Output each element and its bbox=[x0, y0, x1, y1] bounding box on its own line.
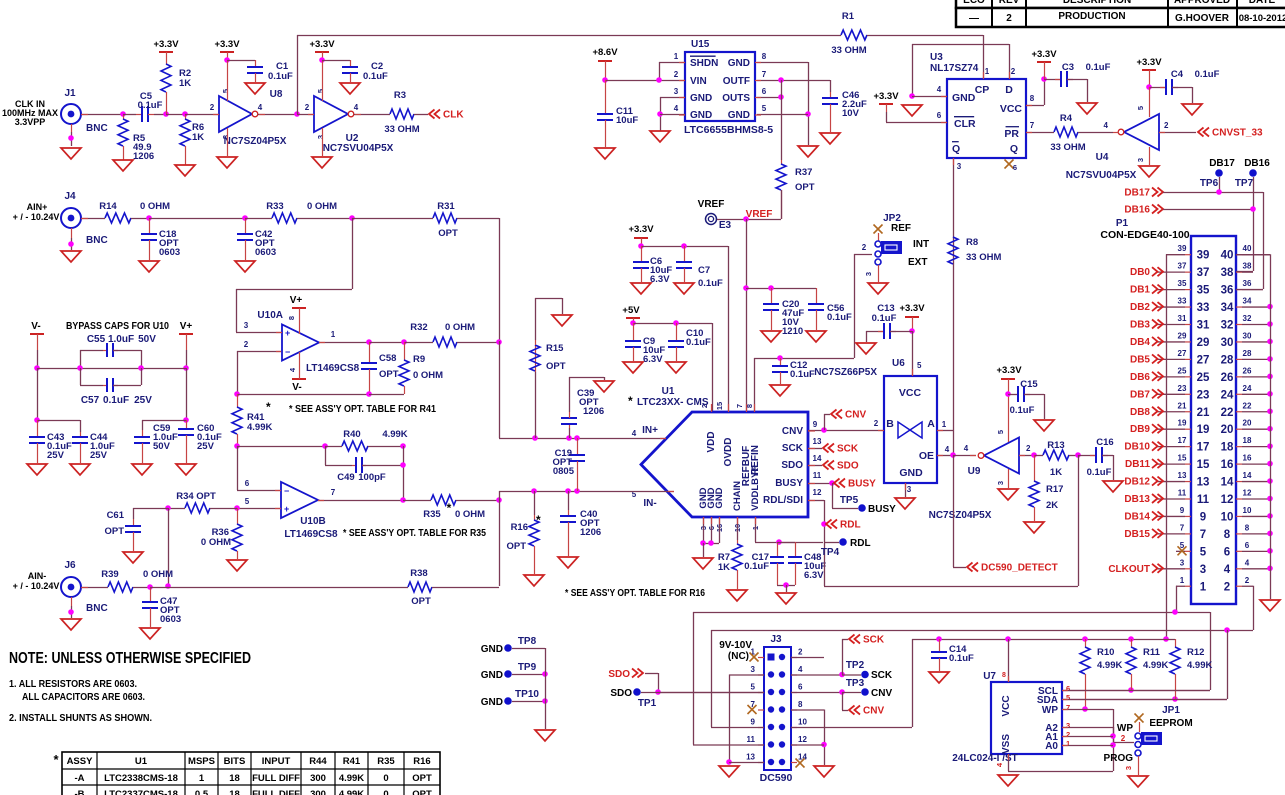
svg-text:ALL CAPACITORS ARE 0603.: ALL CAPACITORS ARE 0603. bbox=[22, 691, 145, 703]
svg-text:R8: R8 bbox=[966, 237, 978, 248]
svg-text:CLR: CLR bbox=[954, 118, 976, 130]
svg-text:BNC: BNC bbox=[86, 235, 108, 246]
svg-text:TP2: TP2 bbox=[846, 660, 865, 671]
svg-text:7: 7 bbox=[1180, 523, 1185, 532]
svg-text:C3: C3 bbox=[1062, 62, 1074, 73]
svg-text:R44: R44 bbox=[309, 756, 327, 767]
svg-text:NOTE: UNLESS OTHERWISE SPECIFI: NOTE: UNLESS OTHERWISE SPECIFIED bbox=[9, 650, 251, 667]
svg-text:R17: R17 bbox=[1046, 484, 1063, 495]
svg-text:*: * bbox=[536, 513, 541, 527]
svg-text:33 OHM: 33 OHM bbox=[1050, 142, 1085, 153]
svg-text:DB8: DB8 bbox=[1130, 407, 1150, 418]
svg-text:U10B: U10B bbox=[300, 516, 326, 527]
svg-text:5: 5 bbox=[1200, 546, 1207, 558]
svg-text:2: 2 bbox=[674, 70, 679, 79]
svg-text:4: 4 bbox=[937, 85, 942, 94]
svg-text:26: 26 bbox=[1221, 372, 1234, 384]
svg-text:R16: R16 bbox=[413, 756, 430, 767]
svg-text:AIN-: AIN- bbox=[28, 571, 47, 581]
svg-text:15: 15 bbox=[1178, 454, 1187, 463]
svg-text:28: 28 bbox=[1221, 354, 1234, 366]
svg-text:C16: C16 bbox=[1096, 437, 1113, 448]
svg-text:9: 9 bbox=[1180, 506, 1185, 515]
svg-text:OE: OE bbox=[919, 450, 934, 462]
svg-text:R9: R9 bbox=[413, 354, 425, 365]
svg-text:25V: 25V bbox=[134, 395, 152, 406]
svg-text:2: 2 bbox=[1006, 13, 1012, 24]
svg-text:+: + bbox=[284, 504, 289, 514]
svg-text:2: 2 bbox=[1224, 581, 1230, 593]
svg-text:23: 23 bbox=[1197, 389, 1210, 401]
svg-text:OVDD: OVDD bbox=[723, 438, 734, 467]
svg-text:5: 5 bbox=[221, 89, 230, 93]
svg-text:100pF: 100pF bbox=[358, 472, 386, 483]
svg-text:U1: U1 bbox=[135, 756, 148, 767]
svg-text:VREF: VREF bbox=[746, 209, 773, 220]
svg-text:3.3VPP: 3.3VPP bbox=[15, 117, 46, 127]
svg-text:*: * bbox=[53, 752, 59, 767]
svg-text:TP8: TP8 bbox=[518, 636, 537, 647]
svg-text:9: 9 bbox=[751, 718, 756, 727]
svg-text:DB14: DB14 bbox=[1124, 511, 1150, 522]
svg-text:0.1uF: 0.1uF bbox=[827, 312, 852, 323]
svg-text:IN+: IN+ bbox=[642, 425, 658, 436]
svg-text:4.99K: 4.99K bbox=[339, 789, 364, 795]
svg-text:LT1469CS8: LT1469CS8 bbox=[284, 529, 338, 540]
svg-text:08-10-2012: 08-10-2012 bbox=[1239, 13, 1285, 24]
svg-text:4.99K: 4.99K bbox=[339, 773, 364, 784]
svg-text:DB6: DB6 bbox=[1130, 372, 1150, 383]
svg-text:2: 2 bbox=[700, 404, 709, 408]
svg-text:NC7SZ04P5X: NC7SZ04P5X bbox=[929, 510, 992, 521]
svg-text:18: 18 bbox=[1221, 442, 1234, 454]
svg-text:DB7: DB7 bbox=[1130, 389, 1150, 400]
svg-text:12: 12 bbox=[1221, 494, 1234, 506]
svg-text:DB16: DB16 bbox=[1124, 205, 1150, 216]
svg-text:J1: J1 bbox=[64, 88, 76, 99]
svg-text:NC7SVU04P5X: NC7SVU04P5X bbox=[323, 143, 394, 154]
svg-text:29: 29 bbox=[1178, 331, 1187, 340]
svg-text:DB16: DB16 bbox=[1244, 158, 1270, 169]
svg-text:INPUT: INPUT bbox=[262, 756, 291, 767]
svg-text:OPT: OPT bbox=[196, 491, 216, 502]
svg-text:DB17: DB17 bbox=[1209, 158, 1235, 169]
svg-text:CNVST_33: CNVST_33 bbox=[1212, 128, 1263, 139]
svg-text:RDL/SDI: RDL/SDI bbox=[763, 495, 803, 506]
svg-text:AIN+: AIN+ bbox=[27, 202, 48, 212]
svg-text:0 OHM: 0 OHM bbox=[445, 322, 475, 333]
svg-text:-A: -A bbox=[74, 773, 84, 784]
svg-text:0.1uF: 0.1uF bbox=[1195, 69, 1220, 80]
svg-text:3: 3 bbox=[996, 481, 1005, 485]
svg-text:1.0uF: 1.0uF bbox=[108, 334, 134, 345]
svg-text:VDDLBYP: VDDLBYP bbox=[750, 465, 761, 511]
svg-text:14: 14 bbox=[1221, 477, 1234, 489]
svg-text:26: 26 bbox=[1243, 366, 1252, 375]
svg-text:0.1uF: 0.1uF bbox=[744, 561, 769, 572]
svg-text:IN-: IN- bbox=[643, 498, 656, 509]
svg-text:10V: 10V bbox=[842, 108, 860, 119]
svg-text:U9: U9 bbox=[968, 466, 981, 477]
svg-text:1: 1 bbox=[942, 420, 947, 429]
svg-text:DB12: DB12 bbox=[1124, 477, 1150, 488]
svg-text:0.1uF: 0.1uF bbox=[872, 313, 897, 324]
svg-text:OPT: OPT bbox=[411, 596, 431, 607]
svg-text:8: 8 bbox=[762, 52, 767, 61]
svg-text:10: 10 bbox=[1243, 506, 1252, 515]
svg-text:36: 36 bbox=[1243, 279, 1252, 288]
svg-text:* SEE ASS'Y OPT. TABLE FOR R41: * SEE ASS'Y OPT. TABLE FOR R41 bbox=[289, 404, 436, 415]
svg-text:15: 15 bbox=[1197, 459, 1210, 471]
svg-text:NL17SZ74: NL17SZ74 bbox=[930, 63, 979, 74]
svg-text:U10A: U10A bbox=[257, 310, 283, 321]
svg-text:0 OHM: 0 OHM bbox=[413, 370, 443, 381]
svg-text:39: 39 bbox=[1178, 244, 1187, 253]
svg-text:0.1uF: 0.1uF bbox=[686, 337, 711, 348]
svg-text:−: − bbox=[284, 486, 289, 496]
svg-text:6: 6 bbox=[245, 479, 250, 488]
svg-text:OPT: OPT bbox=[104, 526, 124, 537]
svg-text:* SEE ASS'Y OPT. TABLE FOR R16: * SEE ASS'Y OPT. TABLE FOR R16 bbox=[565, 588, 705, 599]
svg-text:1206: 1206 bbox=[583, 406, 604, 417]
svg-text:6.3V: 6.3V bbox=[643, 354, 663, 365]
svg-text:11: 11 bbox=[813, 471, 822, 480]
svg-text:7: 7 bbox=[762, 70, 767, 79]
svg-text:37: 37 bbox=[1178, 262, 1187, 271]
svg-text:VSS: VSS bbox=[1001, 734, 1012, 754]
svg-text:+3.3V: +3.3V bbox=[899, 303, 925, 314]
svg-text:3: 3 bbox=[1180, 558, 1185, 567]
svg-text:TP6: TP6 bbox=[1200, 178, 1219, 189]
svg-text:50V: 50V bbox=[138, 334, 156, 345]
svg-text:RDL: RDL bbox=[840, 520, 861, 531]
svg-text:1206: 1206 bbox=[133, 151, 154, 162]
svg-text:20: 20 bbox=[1221, 424, 1234, 436]
svg-text:R33: R33 bbox=[266, 201, 283, 212]
svg-text:U6: U6 bbox=[892, 358, 905, 369]
svg-text:0 OHM: 0 OHM bbox=[143, 569, 173, 580]
svg-text:2. INSTALL SHUNTS AS SHOWN.: 2. INSTALL SHUNTS AS SHOWN. bbox=[9, 712, 152, 724]
svg-text:A: A bbox=[927, 418, 935, 430]
svg-text:SDO: SDO bbox=[781, 460, 803, 471]
svg-text:4: 4 bbox=[1104, 121, 1109, 130]
svg-text:GND: GND bbox=[728, 110, 750, 121]
svg-text:GND: GND bbox=[952, 92, 976, 104]
svg-text:13: 13 bbox=[1178, 471, 1187, 480]
svg-text:ASSY: ASSY bbox=[67, 756, 94, 767]
svg-text:7: 7 bbox=[331, 488, 336, 497]
svg-text:BITS: BITS bbox=[224, 756, 246, 767]
svg-text:0.1uF: 0.1uF bbox=[103, 395, 129, 406]
svg-text:19: 19 bbox=[1178, 419, 1187, 428]
svg-text:TP7: TP7 bbox=[1235, 178, 1254, 189]
svg-text:30: 30 bbox=[1221, 337, 1234, 349]
svg-text:RDL: RDL bbox=[850, 538, 871, 549]
svg-text:GND: GND bbox=[481, 697, 503, 708]
svg-text:DB1: DB1 bbox=[1130, 285, 1150, 296]
svg-text:0.1uF: 0.1uF bbox=[1087, 467, 1112, 478]
svg-text:5: 5 bbox=[1066, 693, 1070, 702]
svg-text:—: — bbox=[969, 13, 979, 24]
svg-text:0.1uF: 0.1uF bbox=[268, 71, 293, 82]
svg-text:R4: R4 bbox=[1060, 113, 1073, 124]
svg-text:3: 3 bbox=[674, 87, 679, 96]
svg-text:DC590_DETECT: DC590_DETECT bbox=[981, 563, 1058, 574]
svg-text:3: 3 bbox=[244, 321, 249, 330]
svg-text:11: 11 bbox=[1178, 489, 1187, 498]
svg-text:6.3V: 6.3V bbox=[650, 274, 670, 285]
svg-text:2: 2 bbox=[1164, 121, 1169, 130]
svg-text:5: 5 bbox=[762, 104, 767, 113]
svg-text:5: 5 bbox=[316, 89, 325, 93]
svg-text:5: 5 bbox=[1136, 106, 1145, 110]
svg-text:34: 34 bbox=[1221, 302, 1234, 314]
svg-text:3: 3 bbox=[316, 135, 325, 139]
svg-text:JP1: JP1 bbox=[1162, 705, 1180, 716]
svg-text:U1: U1 bbox=[662, 386, 675, 397]
svg-text:4: 4 bbox=[945, 445, 950, 454]
svg-text:35: 35 bbox=[1178, 279, 1187, 288]
svg-text:5: 5 bbox=[917, 361, 922, 370]
svg-text:6: 6 bbox=[798, 683, 803, 692]
svg-text:7: 7 bbox=[1200, 529, 1206, 541]
svg-text:ECO: ECO bbox=[963, 0, 985, 6]
svg-text:3: 3 bbox=[864, 272, 873, 276]
svg-text:32: 32 bbox=[1243, 314, 1252, 323]
svg-text:50V: 50V bbox=[153, 441, 171, 452]
svg-text:8: 8 bbox=[1245, 523, 1250, 532]
svg-text:1K: 1K bbox=[179, 78, 191, 89]
svg-text:0805: 0805 bbox=[553, 466, 575, 477]
svg-text:3: 3 bbox=[1124, 766, 1133, 770]
svg-text:36: 36 bbox=[1221, 285, 1234, 297]
svg-text:12: 12 bbox=[798, 735, 807, 744]
svg-text:2: 2 bbox=[244, 340, 249, 349]
svg-text:REF: REF bbox=[891, 223, 911, 234]
svg-text:MSPS: MSPS bbox=[188, 756, 215, 767]
svg-text:BNC: BNC bbox=[86, 603, 108, 614]
svg-text:+3.3V: +3.3V bbox=[628, 224, 654, 235]
svg-text:17: 17 bbox=[1197, 442, 1210, 454]
svg-text:SDO: SDO bbox=[837, 461, 859, 472]
svg-text:27: 27 bbox=[1178, 349, 1187, 358]
svg-text:PROG: PROG bbox=[1104, 753, 1134, 764]
svg-text:CON-EDGE40-100: CON-EDGE40-100 bbox=[1100, 229, 1189, 241]
svg-text:10uF: 10uF bbox=[616, 115, 638, 126]
svg-text:0 OHM: 0 OHM bbox=[455, 509, 485, 520]
svg-text:INT: INT bbox=[913, 239, 929, 250]
svg-text:6: 6 bbox=[1224, 546, 1230, 558]
svg-text:3: 3 bbox=[751, 665, 756, 674]
svg-text:6: 6 bbox=[1066, 684, 1070, 693]
svg-text:25V: 25V bbox=[90, 450, 108, 461]
svg-text:+ / - 10.24V: + / - 10.24V bbox=[13, 212, 60, 222]
svg-text:2: 2 bbox=[1245, 576, 1250, 585]
svg-text:4.99K: 4.99K bbox=[382, 429, 407, 440]
svg-text:C49: C49 bbox=[337, 472, 354, 483]
svg-text:CNV: CNV bbox=[845, 410, 866, 421]
svg-text:C57: C57 bbox=[81, 395, 100, 406]
svg-text:OPT: OPT bbox=[438, 228, 458, 239]
svg-text:0.1uF: 0.1uF bbox=[790, 369, 815, 380]
svg-text:R11: R11 bbox=[1143, 647, 1161, 658]
svg-text:LTC23XX- CMS: LTC23XX- CMS bbox=[637, 397, 709, 408]
svg-text:18: 18 bbox=[229, 773, 240, 784]
svg-text:V+: V+ bbox=[180, 321, 193, 332]
svg-text:U8: U8 bbox=[270, 89, 283, 100]
svg-text:C58: C58 bbox=[379, 353, 396, 364]
svg-text:A0: A0 bbox=[1045, 741, 1058, 752]
svg-text:CNV: CNV bbox=[782, 426, 803, 437]
svg-text:D: D bbox=[1005, 84, 1013, 96]
svg-text:6: 6 bbox=[762, 87, 767, 96]
svg-text:R14: R14 bbox=[99, 201, 117, 212]
svg-text:11: 11 bbox=[747, 735, 756, 744]
svg-text:OPT: OPT bbox=[546, 361, 566, 372]
svg-text:37: 37 bbox=[1197, 267, 1210, 279]
svg-text:+3.3V: +3.3V bbox=[214, 39, 240, 50]
svg-text:−: − bbox=[285, 347, 290, 357]
svg-text:P1: P1 bbox=[1116, 218, 1129, 229]
svg-text:3: 3 bbox=[957, 162, 962, 171]
svg-text:1: 1 bbox=[1180, 576, 1185, 585]
svg-text:14: 14 bbox=[1243, 471, 1252, 480]
svg-text:10: 10 bbox=[798, 718, 807, 727]
svg-text:18: 18 bbox=[229, 789, 240, 795]
svg-text:7: 7 bbox=[1030, 121, 1035, 130]
svg-text:FULL DIFF: FULL DIFF bbox=[252, 789, 300, 795]
svg-text:0: 0 bbox=[383, 773, 388, 784]
svg-text:R40: R40 bbox=[343, 429, 360, 440]
svg-text:DB11: DB11 bbox=[1125, 459, 1150, 470]
svg-text:4: 4 bbox=[1245, 558, 1250, 567]
svg-text:2: 2 bbox=[305, 103, 310, 112]
svg-text:3: 3 bbox=[1136, 158, 1145, 162]
svg-text:17: 17 bbox=[1178, 436, 1187, 445]
svg-text:4: 4 bbox=[1224, 564, 1231, 576]
svg-text:+ / - 10.24V: + / - 10.24V bbox=[13, 581, 60, 591]
svg-text:FULL DIFF: FULL DIFF bbox=[252, 773, 300, 784]
svg-text:4: 4 bbox=[632, 429, 637, 438]
svg-text:J6: J6 bbox=[64, 560, 76, 571]
svg-text:31: 31 bbox=[1197, 320, 1210, 332]
svg-text:C61: C61 bbox=[107, 510, 125, 521]
svg-text:R38: R38 bbox=[410, 568, 427, 579]
svg-text:22: 22 bbox=[1243, 401, 1252, 410]
svg-text:300: 300 bbox=[310, 773, 326, 784]
svg-text:8: 8 bbox=[287, 316, 296, 320]
svg-text:+5V: +5V bbox=[622, 305, 640, 316]
svg-text:OPT: OPT bbox=[795, 182, 815, 193]
svg-text:4: 4 bbox=[798, 665, 803, 674]
svg-text:0.1uF: 0.1uF bbox=[138, 100, 163, 111]
svg-text:38: 38 bbox=[1221, 267, 1234, 279]
svg-text:NC7SVU04P5X: NC7SVU04P5X bbox=[1066, 170, 1137, 181]
svg-text:11: 11 bbox=[1197, 494, 1210, 506]
svg-text:2: 2 bbox=[210, 103, 215, 112]
svg-text:SCK: SCK bbox=[871, 670, 893, 681]
svg-text:13: 13 bbox=[746, 753, 755, 762]
svg-text:C4: C4 bbox=[1171, 69, 1184, 80]
svg-text:VCC: VCC bbox=[1000, 103, 1023, 115]
svg-text:BUSY: BUSY bbox=[868, 504, 896, 515]
svg-text:4.99K: 4.99K bbox=[1097, 660, 1122, 671]
svg-text:30: 30 bbox=[1243, 331, 1252, 340]
svg-text:VCC: VCC bbox=[1001, 695, 1012, 716]
svg-text:27: 27 bbox=[1197, 354, 1210, 366]
svg-text:J3: J3 bbox=[770, 634, 782, 645]
svg-text:R34: R34 bbox=[176, 491, 194, 502]
svg-text:CLKOUT: CLKOUT bbox=[1108, 564, 1150, 575]
svg-text:R13: R13 bbox=[1047, 440, 1064, 451]
svg-text:TP3: TP3 bbox=[846, 678, 865, 689]
svg-text:8: 8 bbox=[1002, 672, 1006, 679]
svg-text:R15: R15 bbox=[546, 343, 564, 354]
svg-text:WP: WP bbox=[1117, 723, 1133, 734]
svg-text:0.1uF: 0.1uF bbox=[949, 653, 974, 664]
svg-text:9: 9 bbox=[1200, 511, 1206, 523]
svg-text:4.99K: 4.99K bbox=[247, 422, 272, 433]
svg-text:4: 4 bbox=[674, 104, 679, 113]
svg-text:1: 1 bbox=[199, 773, 205, 784]
svg-text:0.5: 0.5 bbox=[195, 789, 209, 795]
svg-text:CHAIN: CHAIN bbox=[732, 481, 743, 511]
svg-text:15: 15 bbox=[715, 402, 724, 410]
svg-text:1206: 1206 bbox=[580, 527, 601, 538]
svg-text:21: 21 bbox=[1178, 401, 1187, 410]
svg-text:E3: E3 bbox=[719, 220, 732, 231]
svg-text:1: 1 bbox=[985, 67, 990, 76]
svg-text:CLK: CLK bbox=[443, 110, 464, 121]
svg-text:DATE: DATE bbox=[1249, 0, 1276, 6]
svg-text:1210: 1210 bbox=[782, 326, 803, 337]
svg-text:DC590: DC590 bbox=[760, 772, 793, 784]
svg-text:Q: Q bbox=[952, 143, 960, 155]
svg-text:0603: 0603 bbox=[255, 247, 276, 258]
svg-text:14: 14 bbox=[813, 454, 822, 463]
svg-text:32: 32 bbox=[1221, 320, 1234, 332]
svg-text:R35: R35 bbox=[377, 756, 395, 767]
svg-text:2: 2 bbox=[1121, 734, 1126, 743]
svg-text:0 OHM: 0 OHM bbox=[307, 201, 337, 212]
svg-text:2: 2 bbox=[1026, 444, 1031, 453]
svg-text:BUSY: BUSY bbox=[848, 479, 876, 490]
svg-text:VDD: VDD bbox=[706, 431, 717, 452]
svg-text:C55: C55 bbox=[87, 334, 106, 345]
svg-text:33 OHM: 33 OHM bbox=[831, 45, 866, 56]
svg-text:1: 1 bbox=[331, 330, 336, 339]
svg-text:U15: U15 bbox=[691, 39, 710, 50]
svg-text:R35: R35 bbox=[423, 509, 441, 520]
svg-text:1K: 1K bbox=[192, 132, 204, 143]
svg-text:25: 25 bbox=[1197, 372, 1210, 384]
svg-text:DB15: DB15 bbox=[1124, 529, 1150, 540]
svg-text:0: 0 bbox=[383, 789, 388, 795]
svg-text:+3.3V: +3.3V bbox=[996, 365, 1022, 376]
svg-text:5: 5 bbox=[751, 683, 756, 692]
svg-text:OPT: OPT bbox=[412, 773, 432, 784]
svg-text:3: 3 bbox=[1200, 564, 1206, 576]
svg-text:C15: C15 bbox=[1020, 379, 1038, 390]
svg-text:TP4: TP4 bbox=[821, 547, 840, 558]
svg-text:4: 4 bbox=[288, 367, 297, 372]
svg-text:OPT: OPT bbox=[506, 541, 526, 552]
svg-text:VCC: VCC bbox=[899, 387, 922, 399]
svg-text:GND: GND bbox=[481, 644, 503, 655]
svg-text:1: 1 bbox=[1066, 739, 1070, 748]
svg-text:300: 300 bbox=[310, 789, 326, 795]
svg-text:DB4: DB4 bbox=[1130, 337, 1150, 348]
